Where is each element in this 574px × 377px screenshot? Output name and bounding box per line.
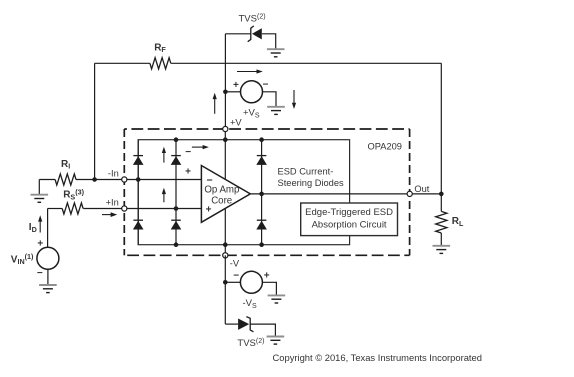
svg-text:+: + <box>185 166 191 177</box>
ground (+VS) <box>267 107 285 115</box>
svg-text:−: − <box>185 147 191 158</box>
wire left feedback vertical <box>94 63 96 179</box>
resistor RI <box>39 159 76 195</box>
junction (output col4) <box>259 192 264 197</box>
TVS diode TVS2 (bottom) <box>225 317 275 349</box>
diode D6 (col4 bottom) <box>256 220 267 229</box>
svg-text:ESD Current-: ESD Current- <box>278 166 334 176</box>
voltage source -VS <box>225 271 276 310</box>
svg-text:-In: -In <box>108 168 119 178</box>
wire +V/-V mid vertical (behind op-amp) <box>224 129 226 255</box>
wire feedback top horizontal <box>95 62 442 64</box>
wire -V branch vertical <box>224 255 226 324</box>
wire right feedback vertical <box>440 63 442 194</box>
annotation arrow (up, inside box upper) <box>162 147 166 163</box>
svg-text:-V: -V <box>230 259 240 269</box>
svg-text:Copyright © 2016, Texas Instru: Copyright © 2016, Texas Instruments Inco… <box>273 352 482 363</box>
junction (-In / RF) <box>92 177 97 182</box>
wire diode column 2 <box>175 140 177 245</box>
diode D4 (col2 bottom) <box>171 220 182 229</box>
junction (-In col1) <box>136 177 141 182</box>
annotation arrow (current down, right of +VS ground) <box>292 90 296 109</box>
svg-text:OPA209: OPA209 <box>368 141 402 151</box>
wire +In line <box>83 208 201 210</box>
diode D2 (col1 bottom) <box>133 220 144 229</box>
svg-text:Absorption Circuit: Absorption Circuit <box>312 220 387 231</box>
junction (output / RL) <box>439 192 444 197</box>
resistor RL <box>436 194 464 246</box>
ground (-VS) <box>268 295 286 303</box>
current label ID with arrow <box>29 215 43 234</box>
ground (VIN) <box>39 285 57 293</box>
junction (bottom rail mid) <box>223 242 228 247</box>
svg-text:−: − <box>37 268 43 279</box>
diode D5 (col4 top) <box>256 156 267 165</box>
voltage source VIN <box>11 209 59 286</box>
annotation arrow (up, inside box lower) <box>162 188 166 203</box>
inner box ESD current-steering diodes <box>138 140 349 245</box>
annotation arrow (current up, left of +VS) <box>213 93 217 114</box>
resistor RF <box>150 42 171 69</box>
junction (top rail col2) <box>174 137 179 142</box>
junction (-VS) <box>223 280 228 285</box>
junction (top rail col4) <box>259 137 264 142</box>
op-amp U1 <box>201 166 250 223</box>
junction (TVS / +VS) <box>223 90 228 95</box>
svg-text:+: + <box>233 80 239 91</box>
svg-text:−: − <box>263 80 269 91</box>
junction (top rail mid) <box>223 137 228 142</box>
node -In <box>108 168 127 182</box>
ground (TVS2) <box>267 337 285 345</box>
svg-text:Core: Core <box>211 196 232 207</box>
ground (top TVS) <box>267 49 285 57</box>
wire output line <box>250 193 441 195</box>
diode D3 (col2 top) <box>171 156 182 165</box>
svg-text:Steering Diodes: Steering Diodes <box>278 178 345 188</box>
wire diode column 1 <box>137 140 139 245</box>
node +V <box>223 118 243 132</box>
wire -In line <box>76 179 201 181</box>
annotation arrow (current right, above +VS) <box>237 69 263 73</box>
svg-text:+V: +V <box>230 118 242 128</box>
TVS diode TVS1 (top) <box>225 14 275 50</box>
box Edge-Triggered ESD Absorption Circuit <box>301 203 398 236</box>
junction (+In col2) <box>174 206 179 211</box>
svg-text:−: − <box>233 271 239 282</box>
node -V <box>223 253 240 269</box>
wire diode column 4 <box>261 140 263 245</box>
svg-text:+: + <box>264 271 270 282</box>
annotation arrow (into +In) <box>102 212 117 217</box>
svg-text:+In: +In <box>106 197 119 207</box>
ground (RI) <box>31 195 49 203</box>
node Out <box>407 184 430 196</box>
diode D1 (col1 top) <box>133 156 144 165</box>
ground (RL) <box>433 246 451 254</box>
node +In <box>106 197 127 211</box>
junction (bottom rail col2) <box>174 242 179 247</box>
svg-text:Op Amp: Op Amp <box>204 185 239 196</box>
junction (bottom rail col4) <box>259 242 264 247</box>
svg-text:Out: Out <box>414 184 429 194</box>
voltage source +VS <box>225 80 276 120</box>
wire TVS branch vertical <box>224 34 226 129</box>
svg-text:Edge-Triggered ESD: Edge-Triggered ESD <box>305 207 393 218</box>
annotation minus and arrow (top of col2) <box>185 145 209 158</box>
resistor RS <box>48 188 85 215</box>
label ESD Current-Steering Diodes <box>278 166 345 188</box>
dashed box OPA209 package <box>124 129 409 255</box>
